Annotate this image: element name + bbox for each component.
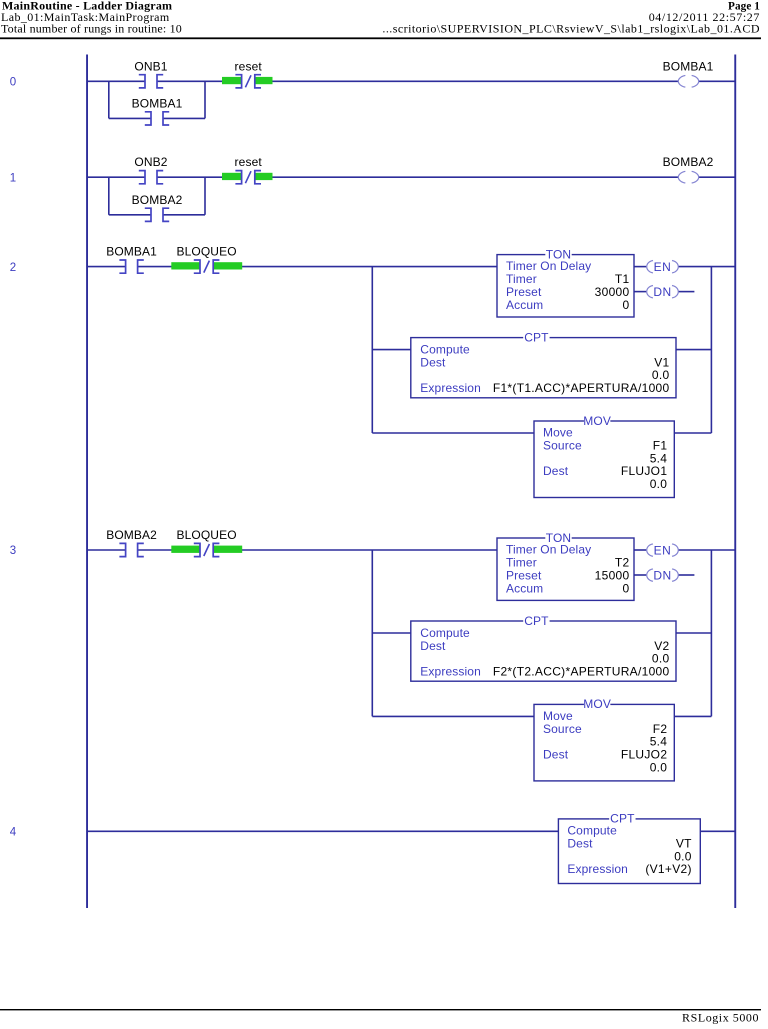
svg-text:3: 3 (10, 545, 17, 557)
contact reset rung1 (XIO, highlighted) (222, 155, 273, 184)
wire: rung 1 branch right vertical (204, 177, 206, 215)
svg-text:Accum: Accum (506, 581, 543, 595)
svg-text:2: 2 (10, 262, 17, 274)
wire: rung 4 CPT to right rail (700, 830, 735, 832)
svg-text:0: 0 (623, 298, 630, 312)
wire: rung 1 branch left vertical (108, 177, 110, 215)
svg-text:0: 0 (623, 581, 630, 595)
svg-text:BOMBA2: BOMBA2 (663, 155, 714, 169)
output DN rung 2 (647, 285, 679, 299)
wire: rung 0 coil to right rail (699, 80, 735, 82)
move U: MOV F1 (534, 414, 674, 498)
contact ONB1 (XIC) (134, 59, 167, 88)
wire: rung 3 EN to right rail (679, 549, 735, 551)
svg-text:BOMBA1: BOMBA1 (663, 59, 714, 73)
svg-text:Accum: Accum (506, 298, 543, 312)
svg-text:T2: T2 (615, 556, 630, 570)
wire: rung 3 MOV to right vertical (674, 715, 711, 717)
svg-text:Source: Source (543, 439, 582, 453)
wire: rung 2 BOMBA1 to BLOQUEO (137, 266, 200, 268)
coil BOMBA1 (OTE) (663, 59, 714, 87)
svg-text:F1*(T1.ACC)*APERTURA/1000: F1*(T1.ACC)*APERTURA/1000 (493, 381, 670, 395)
wire: rung 0 branch to BOMBA1 (109, 117, 151, 119)
svg-text:30000: 30000 (595, 285, 630, 299)
output DN rung 3 (647, 568, 679, 582)
wire: rung 2 TON to EN (634, 266, 646, 268)
svg-text:reset: reset (235, 155, 263, 169)
wire: rung 2 branch to MOV (372, 432, 534, 434)
wire: rung 2 TON to DN (634, 291, 646, 293)
wire: rung 3 TON to DN (634, 574, 646, 576)
compute U: CPT V1 (411, 330, 676, 397)
svg-text:MOV: MOV (583, 697, 611, 711)
svg-text:Total number of rungs in routi: Total number of rungs in routine: 10 (1, 22, 182, 36)
left power rail (86, 55, 88, 909)
svg-text:Timer: Timer (506, 272, 537, 286)
wire: rung 3 branch to CPT (372, 632, 411, 634)
svg-text:Dest: Dest (420, 355, 446, 369)
wire: rung 2 EN to right rail (679, 266, 735, 268)
wire: rung 3 left branch vertical (371, 550, 373, 716)
svg-text:RSLogix 5000: RSLogix 5000 (682, 1011, 759, 1025)
wire: rung 2 CPT to right vertical (676, 349, 711, 351)
svg-text:Preset: Preset (506, 568, 542, 582)
wire: rung 2 rail to BOMBA1 (88, 266, 126, 268)
svg-text:0: 0 (10, 77, 17, 89)
svg-text:F2*(T2.ACC)*APERTURA/1000: F2*(T2.ACC)*APERTURA/1000 (493, 664, 670, 678)
wire: rung 3 rail to BOMBA2 (88, 549, 126, 551)
wire: rung 3 TON to EN (634, 549, 646, 551)
header rule (0, 37, 761, 39)
svg-text:reset: reset (235, 59, 263, 73)
wire: rung 1 ONB2 to reset (157, 176, 242, 178)
svg-text:Timer: Timer (506, 556, 537, 570)
contact BOMBA1 branch (XIC) (132, 96, 183, 125)
footer rule (0, 1009, 761, 1010)
svg-text:EN: EN (654, 260, 672, 274)
output EN rung 2 (647, 260, 679, 274)
wire: rung 2 branch to CPT (372, 349, 411, 351)
timer on delay U: TON T2 (497, 531, 634, 601)
svg-text:Dest: Dest (543, 748, 569, 762)
svg-text:Dest: Dest (420, 639, 446, 653)
wire: rung 0 reset to coil (254, 80, 678, 82)
wire: rung 2 MOV to right vertical (674, 432, 711, 434)
output EN rung 3 (647, 543, 679, 557)
contact ONB2 (XIC) (134, 155, 167, 184)
wire: rung 1 branch to BOMBA2 (109, 214, 151, 216)
svg-text:EN: EN (654, 543, 672, 557)
svg-text:BOMBA1: BOMBA1 (132, 96, 183, 110)
svg-text:0.0: 0.0 (650, 477, 668, 491)
svg-text:ONB1: ONB1 (134, 59, 167, 73)
coil BOMBA2 (OTE) (663, 155, 714, 183)
svg-text:Expression: Expression (420, 381, 481, 395)
wire: rung 3 BLOQUEO to TON (213, 549, 497, 551)
svg-text:Expression: Expression (420, 664, 481, 678)
contact BOMBA2 branch (XIC) (132, 193, 183, 222)
timer on delay U: TON T1 (497, 247, 634, 317)
wire: rung 0 BOMBA1 to branch end (163, 117, 205, 119)
contact BLOQUEO rung 2 (XIO, highlighted) (171, 245, 242, 274)
wire: rung 3 CPT to right vertical (676, 632, 711, 634)
right power rail (734, 55, 736, 909)
svg-text:Timer On Delay: Timer On Delay (506, 543, 591, 557)
svg-text:Dest: Dest (567, 837, 593, 851)
svg-text:BOMBA1: BOMBA1 (106, 245, 157, 259)
svg-text:DN: DN (653, 568, 671, 582)
wire: rung 1 coil to right rail (699, 176, 735, 178)
svg-text:4: 4 (10, 827, 17, 839)
svg-text:1: 1 (10, 172, 17, 184)
wire: rung 1 reset to coil (254, 176, 678, 178)
svg-text:Source: Source (543, 722, 582, 736)
wire: rung 2 left branch vertical (371, 267, 373, 433)
svg-text:DN: DN (653, 285, 671, 299)
wire: rung 3 right branch vertical (710, 550, 712, 716)
wire: rung 2 right branch vertical (710, 267, 712, 433)
wire: rung 1 rail to ONB2 (88, 176, 145, 178)
svg-text:0.0: 0.0 (650, 760, 668, 774)
contact BLOQUEO rung 3 (XIO, highlighted) (171, 528, 242, 557)
move U: MOV F2 (534, 697, 674, 781)
wire: rung 2 BLOQUEO to TON (213, 266, 497, 268)
wire: rung 3 BOMBA2 to BLOQUEO (137, 549, 200, 551)
svg-text:ONB2: ONB2 (134, 155, 167, 169)
svg-text:BLOQUEO: BLOQUEO (176, 245, 236, 259)
svg-text:MOV: MOV (583, 414, 611, 428)
wire: rung 1 BOMBA2 to branch end (163, 214, 205, 216)
wire: rung 4 rail to CPT (88, 830, 558, 832)
wire: rung 0 branch right vertical (204, 81, 206, 118)
svg-text:Dest: Dest (543, 464, 569, 478)
svg-text:BOMBA2: BOMBA2 (106, 528, 157, 542)
svg-text:Expression: Expression (567, 862, 628, 876)
compute U: CPT V2 (411, 614, 676, 681)
wire: rung 0 branch left vertical (108, 81, 110, 118)
wire: rung 2 DN stub (679, 291, 695, 293)
svg-text:15000: 15000 (595, 568, 630, 582)
wire: rung 3 DN stub (679, 574, 695, 576)
contact BOMBA2 (XIC) (106, 528, 157, 557)
wire: rung 0 ONB1 to reset (157, 80, 242, 82)
svg-text:BLOQUEO: BLOQUEO (176, 528, 236, 542)
svg-text:(V1+V2): (V1+V2) (645, 862, 691, 876)
svg-text:T1: T1 (615, 272, 630, 286)
svg-text:BOMBA2: BOMBA2 (132, 193, 183, 207)
compute U: CPT VT (558, 812, 700, 884)
svg-text:Timer On Delay: Timer On Delay (506, 259, 591, 273)
contact reset (XIO, highlighted) (222, 59, 273, 88)
svg-text:CPT: CPT (524, 330, 549, 344)
svg-text:Preset: Preset (506, 285, 542, 299)
svg-text:CPT: CPT (524, 614, 549, 628)
wire: rung 3 branch to MOV (372, 715, 534, 717)
contact BOMBA1 (XIC) (106, 245, 157, 274)
wire: rung 0 rail to ONB1 (88, 80, 145, 82)
svg-text:...scritorio\SUPERVISION_PLC\R: ...scritorio\SUPERVISION_PLC\RsviewV_S\l… (382, 22, 760, 36)
